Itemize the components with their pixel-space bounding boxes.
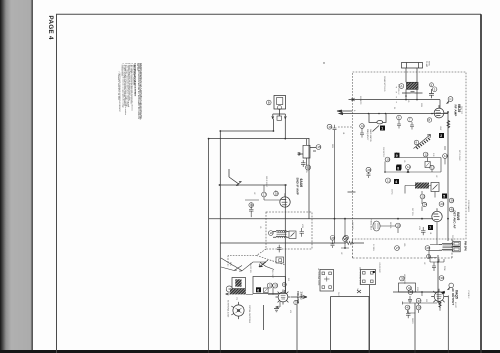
test point TP2 black square	[439, 133, 444, 138]
tick on dashed edge	[348, 191, 356, 193]
dashed audio section bottom	[353, 239, 453, 258]
callout circle crystal	[267, 100, 272, 105]
callout circle 8	[427, 118, 431, 122]
svg-text:28: 28	[426, 246, 430, 250]
svg-text:SEE NOTE: SEE NOTE	[359, 96, 361, 105]
diagonal arrow lead	[259, 260, 268, 267]
svg-text:150: 150	[287, 278, 289, 281]
svg-text:3.3K: 3.3K	[432, 153, 434, 157]
svg-text:2: 2	[431, 83, 433, 87]
speck	[323, 62, 324, 63]
crystal unit box	[272, 96, 287, 121]
page frame left edge	[56, 14, 58, 353]
callout circle 6	[397, 115, 402, 120]
svg-text:8: 8	[397, 167, 399, 171]
svg-text:A: A	[400, 84, 402, 88]
wire vertical x415 to bottom	[414, 303, 416, 353]
svg-text:NO TERMINAL GUIDE: NO TERMINAL GUIDE	[227, 300, 230, 318]
svg-text:.02: .02	[253, 192, 255, 194]
svg-text:CRYSTAL CARTRIDGE: CRYSTAL CARTRIDGE	[248, 305, 251, 324]
IF transformer dashed box	[266, 212, 312, 249]
svg-text:DET COIL: DET COIL	[411, 208, 413, 216]
svg-text:2 ON CHASSIS: 2 ON CHASSIS	[467, 200, 470, 213]
svg-text:OSC NOTE 2: OSC NOTE 2	[382, 147, 384, 157]
svg-text:6: 6	[398, 116, 400, 120]
selenium rectifier mark	[357, 290, 361, 293]
svg-text:38: 38	[418, 306, 422, 310]
capacitor C5	[249, 206, 254, 214]
svg-text:20MFD: 20MFD	[411, 318, 413, 324]
page frame right edge	[480, 14, 482, 353]
svg-text:.05: .05	[259, 226, 261, 228]
svg-text:15: 15	[317, 145, 321, 149]
svg-text:11: 11	[407, 165, 410, 169]
callout circle 40	[449, 207, 454, 212]
page frame top edge	[56, 13, 481, 15]
svg-text:11: 11	[387, 179, 390, 183]
svg-text:22: 22	[421, 195, 425, 199]
svg-text:TONE: TONE	[443, 266, 445, 272]
wire vertical x438	[437, 255, 439, 303]
callout circle 27	[395, 246, 400, 251]
svg-text:2ND TERMINAL GUIDE: 2ND TERMINAL GUIDE	[359, 267, 362, 286]
wire volume to ground	[276, 302, 281, 309]
audio transformer T1 box	[232, 278, 246, 289]
guide 2 black dot	[373, 271, 375, 273]
capacitor near c17	[410, 122, 414, 130]
node dot junction	[416, 99, 418, 101]
callout circle left	[327, 124, 332, 129]
balloon callout V4	[448, 283, 454, 290]
gang switch dashed line	[338, 126, 353, 128]
svg-text:23: 23	[440, 202, 444, 206]
output tube V4 6AQ5	[431, 289, 448, 305]
svg-text:ON-OFF SW: ON-OFF SW	[249, 263, 251, 273]
wire rail y138	[209, 138, 309, 140]
wire coil to grid	[349, 89, 441, 108]
dashed leader to marker	[228, 249, 285, 267]
svg-text:.0047: .0047	[439, 126, 441, 130]
wire rail y243	[220, 242, 364, 244]
svg-text:117V: 117V	[229, 262, 231, 267]
junction wedge below c11	[407, 170, 410, 173]
tube V1 RF amp 6BZ6	[434, 108, 444, 118]
resistor R near c14	[444, 146, 446, 164]
callout circles det	[420, 194, 444, 207]
svg-text:C: C	[449, 97, 452, 101]
svg-text:40MFD 150V: 40MFD 150V	[403, 274, 405, 285]
callout circle 35	[400, 276, 405, 281]
svg-text:2: 2	[236, 297, 238, 301]
bias box	[399, 283, 416, 292]
capacitor above marker	[277, 245, 282, 253]
svg-text:TERM: TERM	[427, 61, 429, 66]
svg-text:220K: 220K	[420, 103, 422, 108]
callout circle 38	[416, 305, 421, 310]
svg-text:PIN 7 TOP: PIN 7 TOP	[460, 106, 462, 115]
callout circle 11	[406, 165, 411, 170]
capacitor below avc	[331, 240, 335, 248]
RF section dashed boundary	[353, 72, 466, 239]
wire phono lead diagonal	[229, 169, 242, 186]
tiny value labels	[229, 76, 470, 324]
test point TP7 black square	[428, 225, 433, 230]
svg-text:1K: 1K	[393, 107, 395, 110]
svg-text:7: 7	[409, 118, 411, 122]
capacitor T2	[300, 228, 305, 237]
callout circle 41	[360, 124, 365, 129]
callout circle 47K	[366, 167, 371, 172]
svg-text:6AU6: 6AU6	[299, 179, 303, 188]
wire audio rail y292	[393, 291, 445, 293]
terminal guide 1 box	[320, 270, 334, 292]
gutter edge line	[31, 0, 33, 353]
svg-text:100K: 100K	[331, 144, 333, 149]
svg-text:RF AMP: RF AMP	[454, 105, 458, 117]
svg-text:220: 220	[425, 299, 427, 302]
callout circle 31	[226, 286, 232, 292]
wire volume out y297 with arrow	[291, 296, 307, 299]
svg-text:14: 14	[444, 154, 448, 158]
svg-text:2: 2	[396, 97, 398, 99]
tube V4 pin dot	[442, 291, 445, 294]
ground symbol	[274, 309, 279, 312]
svg-text:12: 12	[425, 153, 429, 157]
capacitor right of c16	[333, 125, 337, 130]
trimmer box converter	[425, 162, 430, 168]
resistor zigzag y243	[346, 241, 353, 244]
switch box small	[264, 288, 269, 293]
svg-text:24: 24	[423, 203, 427, 207]
svg-text:2: 2	[440, 134, 442, 138]
svg-text:.05: .05	[403, 160, 405, 162]
svg-text:B+: B+	[353, 110, 355, 112]
svg-text:13: 13	[431, 166, 435, 170]
callout circle 32b	[273, 283, 278, 288]
svg-text:.05: .05	[407, 100, 409, 102]
coil L1 ant	[407, 82, 419, 89]
callout circle 3	[432, 87, 437, 92]
T1 coil hatched	[230, 289, 246, 295]
arrow T1 tap	[226, 293, 231, 295]
svg-text:.02: .02	[435, 175, 437, 177]
wire cartridge drop	[263, 305, 265, 330]
power box bottom	[331, 297, 370, 353]
capacitor osc	[301, 160, 306, 167]
callout circle 10b	[386, 178, 391, 183]
wire vertical x209	[208, 139, 210, 353]
converter wires	[385, 158, 441, 173]
tube V2 sound IF 6AU6	[280, 193, 290, 207]
wire B+ twin rail lower	[339, 113, 448, 115]
svg-text:270K: 270K	[416, 287, 418, 292]
callout circle 42	[405, 305, 410, 310]
svg-text:7: 7	[429, 226, 431, 230]
callout circle 28	[425, 246, 430, 251]
svg-text:6: 6	[257, 288, 259, 292]
svg-text:33: 33	[295, 301, 299, 305]
callout circle osc below	[306, 165, 311, 170]
svg-text:1: 1	[396, 102, 398, 104]
wire vertical x221	[219, 131, 221, 353]
svg-text:9: 9	[415, 141, 417, 145]
svg-text:10 MEG: 10 MEG	[389, 222, 391, 229]
svg-text:33: 33	[274, 284, 278, 288]
balloon callout V1	[447, 97, 453, 104]
wire vertical x309	[308, 138, 310, 219]
svg-text:SND IF AMP: SND IF AMP	[296, 178, 300, 195]
audio output transformer T3 primary coil	[439, 243, 453, 247]
callout circles IF grid	[249, 191, 279, 207]
callout circle 22	[420, 194, 425, 199]
trimmer box T2	[289, 231, 296, 239]
wire vertical x334	[334, 130, 336, 243]
svg-text:3: 3	[434, 87, 436, 91]
svg-text:18: 18	[275, 192, 279, 196]
svg-text:5: 5	[443, 195, 445, 199]
svg-text:4Ω VC: 4Ω VC	[454, 302, 456, 308]
callout circle 1	[399, 84, 404, 89]
svg-text:30: 30	[440, 276, 444, 280]
svg-text:.02: .02	[423, 262, 425, 264]
wire rail y185	[220, 184, 288, 186]
svg-text:©Howard W. Sams & Co., Inc. 19: ©Howard W. Sams & Co., Inc. 1963	[117, 73, 120, 100]
svg-text:36: 36	[409, 290, 413, 294]
audio output transformer T3 secondary coil	[439, 249, 453, 250]
callout circle 7	[408, 117, 413, 122]
svg-text:.01: .01	[429, 232, 431, 234]
wire vertical x371 to bottom	[369, 285, 371, 353]
callout circle 36	[408, 290, 413, 295]
callout circle 37	[416, 298, 421, 303]
bottom scan bar	[0, 350, 500, 353]
svg-text:19: 19	[250, 203, 254, 207]
svg-text:26: 26	[344, 237, 348, 241]
svg-text:68: 68	[274, 190, 276, 192]
wire vertical x448 to bottom	[447, 296, 449, 353]
test point TP9 black square	[395, 153, 400, 158]
callout circle 2	[430, 83, 434, 87]
capacitor C20	[406, 310, 411, 318]
resistor blob V4 cathode	[439, 302, 441, 308]
notes text block (rotated 90)	[117, 63, 143, 120]
callout circle 34	[407, 286, 412, 291]
det coil hatched	[415, 183, 429, 189]
resistor zigzag V1 plate	[447, 121, 450, 128]
svg-text:6AV6: 6AV6	[456, 212, 460, 220]
wire rail y219	[209, 218, 433, 220]
capacitor C19	[408, 296, 412, 304]
callout circle 33	[294, 300, 299, 304]
svg-text:AVC BUS: AVC BUS	[351, 222, 354, 230]
callout circle 18	[274, 191, 279, 196]
svg-text:GANG SWITCH: GANG SWITCH	[369, 129, 372, 143]
wire line cord	[221, 258, 274, 271]
svg-text:47K: 47K	[289, 310, 291, 314]
svg-text:8: 8	[428, 118, 430, 122]
callout circle 25	[396, 223, 401, 228]
test point TP8 black square	[396, 166, 401, 171]
svg-text:42: 42	[406, 306, 410, 310]
svg-text:10: 10	[386, 158, 390, 162]
wire vertical x448	[447, 112, 449, 241]
capacitor tuner line	[402, 91, 423, 93]
svg-text:CERAM NOTCH .05: CERAM NOTCH .05	[383, 76, 386, 91]
svg-text:OSC COIL: OSC COIL	[305, 165, 307, 173]
tone network wires	[430, 245, 444, 272]
callout circle avc left	[330, 236, 335, 241]
svg-text:37: 37	[418, 299, 422, 303]
capacitor C9	[421, 227, 426, 235]
svg-text:1: 1	[381, 127, 383, 131]
svg-text:16: 16	[328, 125, 332, 129]
T1 core hatched	[235, 279, 241, 286]
driver box	[253, 277, 286, 294]
marker box M	[276, 257, 284, 263]
svg-text:.02: .02	[340, 252, 342, 254]
svg-text:39: 39	[450, 199, 454, 203]
wire tuner down leads	[406, 68, 417, 82]
callout circle 14	[443, 154, 448, 159]
speaker box upper	[453, 241, 460, 246]
svg-text:17: 17	[263, 193, 267, 197]
wire B+ twin rail upper	[337, 110, 353, 112]
svg-text:455 KC: 455 KC	[391, 189, 393, 195]
test point TP6 black square	[256, 287, 261, 292]
pin numbers column	[396, 87, 398, 104]
svg-text:DET-AVC-AF: DET-AVC-AF	[453, 211, 457, 229]
phono-radio switch oval	[377, 121, 383, 124]
crystal cartridge	[231, 302, 244, 319]
svg-text:PHONO JACK: PHONO JACK	[370, 219, 373, 231]
svg-text:PM SPK: PM SPK	[464, 241, 468, 251]
callout circle 17	[262, 192, 267, 197]
svg-text:LT GRN LF: LT GRN LF	[467, 290, 469, 298]
oscillator cluster	[298, 139, 317, 165]
wire volume row	[246, 288, 278, 295]
arrowhead twin rail	[337, 110, 343, 115]
callout circle 23	[439, 202, 444, 207]
callout circle 24	[422, 202, 427, 206]
callout circle 32	[267, 283, 272, 288]
capacitor near c6	[397, 120, 401, 129]
svg-text:FREQUENCY: FREQUENCY	[366, 129, 368, 141]
svg-text:2ND IF 455KC: 2ND IF 455KC	[265, 176, 267, 188]
svg-text:4: 4	[395, 180, 397, 184]
test point TP5 black square	[442, 194, 447, 199]
svg-text:.01: .01	[342, 132, 344, 134]
svg-text:40: 40	[450, 208, 454, 212]
svg-text:26: 26	[331, 236, 335, 240]
test point TP3 black square	[397, 165, 402, 170]
svg-text:.005: .005	[403, 243, 405, 246]
wire switch diagonal	[373, 126, 380, 132]
svg-text:20: 20	[270, 231, 274, 235]
speaker box lower	[453, 247, 460, 252]
callout circle 13	[430, 165, 435, 169]
svg-text:SEL RECT: SEL RECT	[271, 270, 273, 278]
svg-text:COLOR DOT: COLOR DOT	[378, 263, 380, 273]
test point TP1 black square	[380, 126, 385, 131]
wire vertical x285	[284, 185, 286, 291]
wire vertical x297 to bottom	[296, 305, 298, 353]
svg-text:POWER REPLACEMENT AND MAY NOT: POWER REPLACEMENT AND MAY NOT NECESSARIL…	[137, 63, 140, 119]
wire det plate to T3	[429, 222, 439, 258]
line cord hop N mark 1	[234, 266, 242, 272]
callout circle L3	[414, 140, 419, 145]
det trimmer box	[431, 183, 439, 192]
variable inductor L3	[414, 135, 431, 150]
phono jack oval	[373, 221, 380, 231]
callout circle 29	[427, 255, 432, 259]
wire rail y131	[220, 119, 285, 139]
callout circle 32c	[282, 283, 286, 287]
wire plate to B+	[444, 112, 448, 114]
svg-text:PAGE 4: PAGE 4	[47, 16, 54, 41]
callout circle T2	[268, 231, 273, 236]
wire IF grid	[245, 185, 280, 217]
scan gutter strip	[0, 0, 33, 353]
test point TP4 black square	[394, 179, 399, 184]
wire phono leads	[341, 219, 398, 249]
svg-text:6AQ5: 6AQ5	[455, 290, 459, 299]
output wires	[403, 292, 441, 313]
svg-text:41: 41	[361, 124, 365, 128]
svg-text:2.2 MEG: 2.2 MEG	[372, 244, 374, 251]
capacitor below 47K	[367, 172, 371, 178]
svg-text:AF TERMINAL GUIDE: AF TERMINAL GUIDE	[317, 269, 320, 287]
svg-text:1 MEG: 1 MEG	[299, 292, 303, 300]
svg-text:PILOT: PILOT	[337, 292, 339, 297]
svg-text:1ST IF 455KC: 1ST IF 455KC	[458, 150, 460, 161]
converter cluster circles	[385, 152, 448, 170]
callout circle 10	[385, 157, 390, 162]
svg-text:28: 28	[367, 168, 371, 172]
volume control pot	[276, 290, 291, 305]
svg-text:OSC COIL L2: OSC COIL L2	[397, 84, 399, 94]
det wires	[405, 186, 435, 212]
terminal guide 2 box	[361, 270, 376, 285]
callout circle 12	[423, 152, 428, 157]
svg-text:32: 32	[269, 284, 273, 288]
callout circle avc mid	[344, 235, 349, 240]
capacitor below 41	[360, 128, 364, 137]
callout circle osc	[316, 145, 321, 150]
svg-text:B: B	[268, 101, 270, 105]
callout circle 26	[343, 237, 348, 242]
svg-text:PRI 2.5K: PRI 2.5K	[451, 235, 453, 243]
capacitor C1	[429, 89, 434, 98]
callout circle 19	[249, 203, 254, 208]
callout circle 30	[439, 276, 444, 281]
antenna tuner box	[402, 63, 423, 69]
callout circle 39	[449, 198, 454, 203]
svg-text:27: 27	[396, 246, 400, 250]
IF transformer T2 coils	[273, 230, 289, 237]
phono-radio switch box	[369, 114, 386, 123]
tube V3 det avc 6AV6	[432, 208, 442, 221]
line cord hop N mark 2	[260, 262, 266, 267]
svg-text:470K: 470K	[418, 226, 420, 231]
svg-text:25: 25	[397, 224, 401, 228]
